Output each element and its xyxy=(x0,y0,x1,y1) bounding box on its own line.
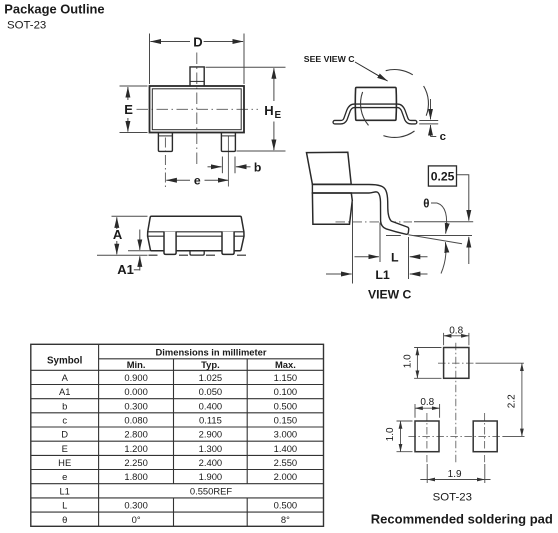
top pin shoulder line xyxy=(190,80,204,82)
dim HE extension line top xyxy=(206,66,286,68)
svg-text:0.550REF: 0.550REF xyxy=(190,485,232,496)
svg-text:0.400: 0.400 xyxy=(199,400,222,411)
0.25 lower arrow xyxy=(468,237,470,264)
dim b arrow right xyxy=(236,166,251,168)
side view left lead xyxy=(164,232,176,255)
svg-text:HE: HE xyxy=(58,457,71,468)
svg-text:1.150: 1.150 xyxy=(274,372,297,383)
bottom pin left xyxy=(158,133,172,152)
svg-text:0.300: 0.300 xyxy=(124,500,147,511)
side view parting line lower xyxy=(148,235,244,237)
svg-text:3.000: 3.000 xyxy=(274,429,297,440)
0.25 box xyxy=(428,166,456,186)
dim L arrow right xyxy=(410,256,428,258)
svg-text:A1: A1 xyxy=(117,262,134,277)
svg-text:1.900: 1.900 xyxy=(199,471,222,482)
dim 1.0 bottom-left arrows xyxy=(400,421,402,452)
table vertical divider min/typ xyxy=(173,359,175,527)
dim b extension line left xyxy=(221,157,223,174)
svg-text:0.000: 0.000 xyxy=(124,386,147,397)
svg-text:0.100: 0.100 xyxy=(274,386,297,397)
svg-text:L1: L1 xyxy=(59,485,69,496)
body outer rectangle xyxy=(150,86,245,133)
pad diagram bottom-right pad vertical centerline xyxy=(484,413,486,462)
svg-text:2.000: 2.000 xyxy=(274,471,297,482)
dim b extension line right xyxy=(234,157,236,174)
svg-text:b: b xyxy=(62,400,67,411)
svg-text:A: A xyxy=(62,372,69,383)
svg-text:1.025: 1.025 xyxy=(199,372,222,383)
dim E arrow down xyxy=(127,118,129,132)
dim 2.2 ext bottom xyxy=(503,435,525,437)
svg-text:θ: θ xyxy=(423,199,429,211)
svg-text:θ: θ xyxy=(62,514,67,525)
svg-text:Typ.: Typ. xyxy=(201,359,220,370)
svg-text:0.050: 0.050 xyxy=(199,386,222,397)
dashed circle arc bottom xyxy=(383,131,414,137)
dim c foot line lower xyxy=(419,123,438,125)
dim e arrow left xyxy=(166,179,190,181)
A1 leader xyxy=(134,269,140,271)
svg-text:1.9: 1.9 xyxy=(448,469,462,480)
gullwing lead (white inner) xyxy=(335,106,415,122)
svg-text:0.900: 0.900 xyxy=(124,372,147,383)
dim A arrow up xyxy=(116,217,118,229)
bottom pin right xyxy=(221,133,235,152)
bottom pin right shoulder xyxy=(221,135,235,137)
svg-text:Min.: Min. xyxy=(127,359,146,370)
table vertical divider typ/max xyxy=(246,359,248,527)
svg-text:1.0: 1.0 xyxy=(403,354,414,368)
svg-text:1.800: 1.800 xyxy=(124,471,147,482)
SEE VIEW C leader arrow xyxy=(355,62,388,81)
svg-text:E: E xyxy=(124,102,133,117)
view C seating horizontal line xyxy=(386,235,472,237)
theta leader xyxy=(431,202,437,204)
dim 2.2 arrows xyxy=(521,363,523,436)
pad diagram bottom row horizontal centerline xyxy=(408,435,503,437)
svg-text:0.115: 0.115 xyxy=(199,415,222,426)
svg-text:L: L xyxy=(62,500,67,511)
svg-text:VIEW C: VIEW C xyxy=(368,288,412,302)
theta arc lower arrow xyxy=(441,242,446,273)
svg-text:e: e xyxy=(194,173,201,187)
seating plane extension line xyxy=(97,254,148,256)
pad diagram main vertical centerline xyxy=(455,343,457,463)
table outer border xyxy=(31,344,324,526)
dim 1.0 top pad ext lines xyxy=(414,348,441,379)
0.25 leader xyxy=(457,175,469,221)
svg-text:b: b xyxy=(254,160,261,174)
view C body edge extension line xyxy=(352,201,354,284)
dim 0.8 top pad ext lines xyxy=(444,333,469,345)
dim D arrow left xyxy=(150,41,190,43)
dim 2.2 ext top xyxy=(476,362,524,364)
svg-text:0.25: 0.25 xyxy=(431,170,455,184)
dim A arrow down xyxy=(116,241,118,254)
dashed circle arc right xyxy=(424,86,429,116)
left pin centerline xyxy=(164,138,166,188)
svg-text:Recommended soldering pad: Recommended soldering pad xyxy=(371,511,553,526)
svg-text:L1: L1 xyxy=(375,268,390,282)
svg-text:2.800: 2.800 xyxy=(124,429,147,440)
pad diagram bottom-left pad vertical centerline xyxy=(426,413,428,462)
dim 1.0 bottom-left ext lines xyxy=(397,421,413,452)
dashed circle view C callout xyxy=(386,70,413,75)
dim L1 arrow left xyxy=(326,273,352,275)
dim 1.9 ticks xyxy=(427,464,485,483)
dim E extension line bottom xyxy=(120,132,148,134)
gullwing lead (black outer) xyxy=(335,106,415,122)
svg-text:A: A xyxy=(113,227,123,242)
view C slanted foot line xyxy=(408,235,462,244)
svg-text:0.500: 0.500 xyxy=(274,500,297,511)
svg-text:c: c xyxy=(440,131,446,143)
dim HE arrow down xyxy=(273,122,275,151)
dim c arrow down xyxy=(430,99,432,119)
svg-text:0.8: 0.8 xyxy=(449,325,463,336)
body inner rectangle xyxy=(152,89,241,130)
svg-text:0.8: 0.8 xyxy=(420,397,434,408)
dim c arrow up xyxy=(430,125,432,137)
svg-text:2.900: 2.900 xyxy=(199,429,222,440)
view C body upper quad xyxy=(307,152,352,184)
svg-text:1.400: 1.400 xyxy=(274,443,297,454)
top view centerline horizontal xyxy=(137,108,259,110)
table vertical divider symbol/min xyxy=(98,344,100,526)
svg-text:8°: 8° xyxy=(281,514,290,525)
body bottom extension line for A1 xyxy=(128,250,150,252)
dim L arrow left xyxy=(355,256,379,258)
svg-text:2.400: 2.400 xyxy=(199,457,222,468)
bottom-left pad xyxy=(415,421,439,452)
view C foot start extension line xyxy=(379,223,381,263)
svg-text:2.250: 2.250 xyxy=(124,457,147,468)
dim 1.0 top pad arrows xyxy=(416,348,418,379)
svg-text:0.080: 0.080 xyxy=(124,415,147,426)
right pin centerline xyxy=(227,136,229,187)
dim A1 arrow down xyxy=(139,230,141,250)
dim e arrow right xyxy=(205,179,229,181)
dim HE extension line bottom xyxy=(237,150,286,152)
svg-text:0°: 0° xyxy=(132,514,141,525)
theta arc upper arrow xyxy=(437,203,447,234)
dim L1 arrow right xyxy=(410,273,428,275)
dim 1.9 line xyxy=(420,479,490,481)
svg-text:SOT-23: SOT-23 xyxy=(7,20,46,32)
svg-text:0.300: 0.300 xyxy=(124,400,147,411)
dim c leader foot xyxy=(431,136,437,138)
dim 0.8 bottom-left ext lines xyxy=(415,404,440,418)
svg-text:1.0: 1.0 xyxy=(385,427,396,441)
table horizontal header divider xyxy=(99,358,324,360)
dim D extension line left xyxy=(149,34,151,85)
dim 0.8 bottom-left arrows xyxy=(415,407,440,409)
svg-text:Max.: Max. xyxy=(275,359,296,370)
svg-text:E: E xyxy=(275,110,282,121)
top pin xyxy=(190,67,204,86)
svg-text:SEE VIEW C: SEE VIEW C xyxy=(304,54,355,64)
svg-text:H: H xyxy=(264,103,273,118)
body of small side view xyxy=(355,87,396,120)
dim E arrow up xyxy=(127,87,129,100)
dashed circle arc left xyxy=(361,92,369,126)
svg-text:D: D xyxy=(193,34,202,49)
svg-text:Symbol: Symbol xyxy=(47,355,83,366)
side view parting line upper xyxy=(148,231,244,233)
pad diagram top pad horizontal centerline xyxy=(438,362,476,364)
dim A1 arrow up xyxy=(139,256,141,270)
svg-text:c: c xyxy=(62,415,67,426)
dim D arrow right xyxy=(204,41,244,43)
svg-text:SOT-23: SOT-23 xyxy=(433,492,472,504)
dim A extension line top xyxy=(112,215,148,217)
svg-text:Dimensions in millimeter: Dimensions in millimeter xyxy=(156,347,267,358)
dim 1.9 arrows xyxy=(427,479,485,481)
svg-text:2.550: 2.550 xyxy=(274,457,297,468)
bottom pin left shoulder xyxy=(158,135,172,137)
side view middle hidden lead xyxy=(190,251,204,255)
dim E extension line top xyxy=(120,85,148,87)
svg-text:1.200: 1.200 xyxy=(124,443,147,454)
view C dash-dot gauge line xyxy=(336,221,413,223)
svg-text:L: L xyxy=(391,251,399,265)
dim 0.8 top pad arrows xyxy=(444,335,469,337)
svg-text:Package Outline: Package Outline xyxy=(4,1,104,16)
svg-text:A1: A1 xyxy=(59,386,70,397)
view C lead outline xyxy=(312,185,408,235)
svg-text:2.2: 2.2 xyxy=(507,394,518,408)
top pad xyxy=(444,348,469,379)
svg-text:E: E xyxy=(62,443,68,454)
view C gauge horizontal line xyxy=(414,221,473,223)
dim HE arrow up xyxy=(273,68,275,101)
dim b arrow left xyxy=(208,166,222,168)
table horizontal row lines xyxy=(31,370,324,512)
table data rows xyxy=(58,372,297,525)
svg-text:e: e xyxy=(62,471,67,482)
dim c foot line upper xyxy=(419,120,438,122)
svg-text:D: D xyxy=(61,429,68,440)
top view centerline vertical xyxy=(196,53,198,165)
view C foot tip extension line xyxy=(408,237,410,279)
side view seating dashes xyxy=(149,254,247,256)
bottom-right pad xyxy=(473,421,497,452)
view C body lower quad xyxy=(312,193,352,224)
side view right lead xyxy=(222,232,234,255)
svg-text:1.300: 1.300 xyxy=(199,443,222,454)
svg-text:0.500: 0.500 xyxy=(274,400,297,411)
dim D extension line right xyxy=(243,34,245,85)
svg-text:0.150: 0.150 xyxy=(274,415,297,426)
side view body outline xyxy=(148,216,244,251)
